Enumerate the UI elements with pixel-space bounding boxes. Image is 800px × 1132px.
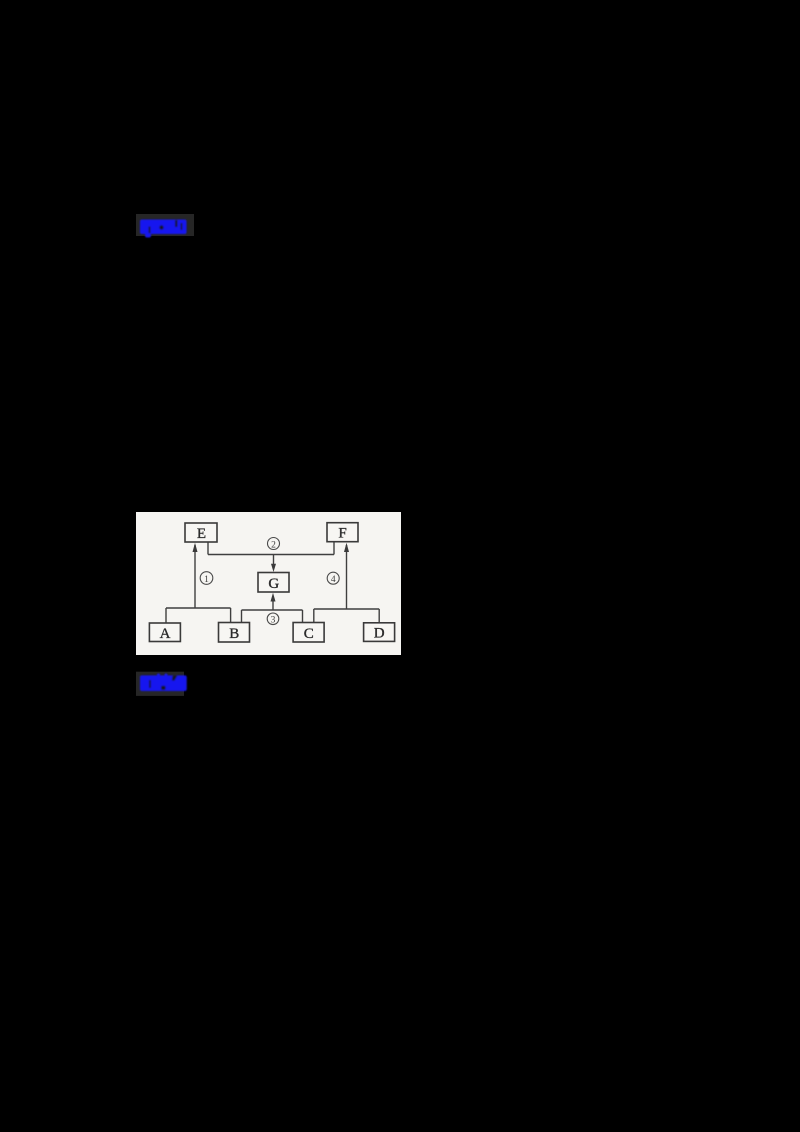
svg-text:A: A xyxy=(160,626,171,642)
wire/arrow 2: down from top horizontal into G xyxy=(273,555,275,566)
diagram panel (white scanned flowchart) xyxy=(136,512,401,655)
wire: B left stub xyxy=(230,608,232,623)
wire: middle bus B-C xyxy=(242,609,303,611)
svg-text:C: C xyxy=(304,626,314,642)
panel background xyxy=(136,512,401,655)
wire: F bottom stub xyxy=(333,542,335,555)
arrowhead up into G xyxy=(271,593,276,602)
wire/arrow 4: right bus up into box F xyxy=(346,545,348,609)
box D xyxy=(364,623,395,642)
svg-text:2: 2 xyxy=(271,540,276,550)
box F xyxy=(327,523,358,542)
answer highlight block 2 (blue text on dark box) xyxy=(134,668,200,702)
wire/arrow 3: up from middle bus into G xyxy=(272,600,274,610)
box B xyxy=(219,623,250,643)
svg-text:F: F xyxy=(338,526,346,542)
wire: top horizontal E-F xyxy=(208,554,334,556)
box G xyxy=(258,573,289,593)
wire: B right stub xyxy=(241,610,243,623)
circled number 2 xyxy=(268,538,280,551)
wire: C left stub xyxy=(302,610,304,623)
svg-text:G: G xyxy=(268,576,279,592)
wire: right bus C-D xyxy=(314,608,379,610)
arrowhead down into G xyxy=(271,564,276,572)
circled number 3 xyxy=(267,613,279,626)
svg-text:1: 1 xyxy=(204,575,209,585)
box C xyxy=(293,623,324,643)
svg-text:D: D xyxy=(374,626,385,642)
svg-text:E: E xyxy=(197,526,206,542)
svg-text:4: 4 xyxy=(331,575,336,585)
svg-text:B: B xyxy=(229,626,239,642)
wire: C right stub xyxy=(313,609,315,623)
wire/arrow 1: left bus up into box E xyxy=(194,545,196,608)
svg-text:3: 3 xyxy=(271,616,276,626)
wire: A stub up to left bus xyxy=(165,608,167,623)
box E xyxy=(185,523,217,542)
circled number 4 xyxy=(327,572,339,585)
wire: D stub xyxy=(378,609,380,623)
wire: E bottom stub down xyxy=(207,542,209,555)
circled number 1 xyxy=(200,572,213,585)
box A xyxy=(149,623,180,642)
answer highlight block 1 (blue text on dark box) xyxy=(134,212,200,242)
arrowhead into F xyxy=(344,543,349,552)
arrowhead into E xyxy=(193,543,198,552)
wire: left bus A-B xyxy=(166,607,231,609)
